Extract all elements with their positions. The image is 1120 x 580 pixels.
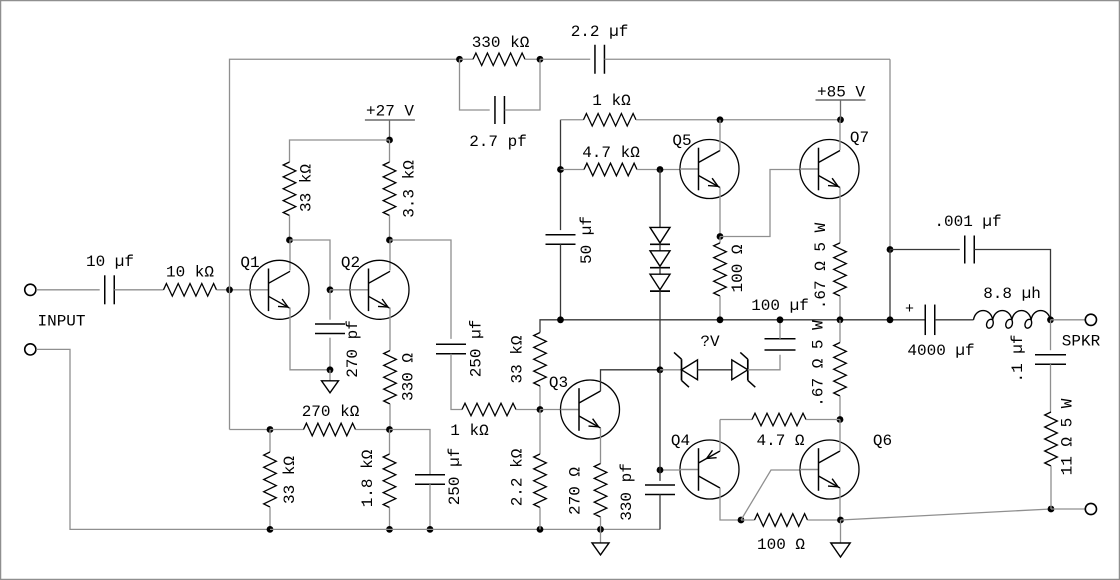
power +27 V <box>365 120 415 140</box>
wire <box>719 296 721 320</box>
label Q1 <box>240 254 259 272</box>
wire <box>839 320 841 343</box>
wire <box>1050 364 1052 412</box>
node (Q1 base) <box>226 286 233 293</box>
wire (Q3 emitter) <box>600 428 602 464</box>
svg-text:1 kΩ: 1 kΩ <box>450 422 489 440</box>
capacitor 4000 µf <box>925 305 935 336</box>
label + (4000 µf polarity) <box>905 301 914 318</box>
wire <box>808 519 841 521</box>
wire <box>806 419 840 421</box>
wire <box>389 140 391 162</box>
capacitor 100 µf <box>765 339 796 350</box>
wire <box>779 320 781 339</box>
node <box>837 316 844 323</box>
wire <box>841 509 1052 520</box>
wire <box>1051 319 1086 321</box>
svg-text:INPUT: INPUT <box>37 313 85 331</box>
svg-text:4000 µf: 4000 µf <box>907 342 974 360</box>
svg-text:4.7 Ω: 4.7 Ω <box>756 432 804 450</box>
node <box>267 426 274 433</box>
label 100 Ω (bottom) <box>757 536 805 554</box>
resistor 270 Ω <box>594 464 607 518</box>
zener diode (right) <box>732 352 756 387</box>
label Q5 <box>672 132 691 150</box>
node <box>456 56 463 63</box>
wire <box>505 59 540 110</box>
svg-text:3.3 kΩ: 3.3 kΩ <box>401 160 419 218</box>
wire <box>451 354 462 410</box>
svg-text:+85 V: +85 V <box>817 84 865 102</box>
label 11 Ω 5 W <box>1059 398 1077 475</box>
svg-text:SPKR: SPKR <box>1062 333 1101 351</box>
label 100 µf <box>751 297 809 315</box>
svg-text:270 kΩ: 270 kΩ <box>302 403 360 421</box>
wire <box>1050 320 1052 350</box>
transistor Q4 <box>680 440 739 499</box>
label 270 Ω <box>567 467 585 515</box>
wire <box>659 494 661 529</box>
label 4.7 Ω <box>756 432 804 450</box>
wire <box>659 291 661 370</box>
svg-text:250 µf: 250 µf <box>468 320 486 378</box>
svg-text:+: + <box>905 301 914 318</box>
svg-text:8.8 µh: 8.8 µh <box>983 285 1041 303</box>
resistor 330 Ω <box>384 351 397 405</box>
capacitor 250 µf (b) <box>415 475 445 485</box>
wire <box>36 349 270 529</box>
capacitor 2.2 µf <box>595 45 605 74</box>
transistor Q6 <box>800 440 859 499</box>
wire <box>539 410 541 455</box>
wire (Q7 emitter) <box>839 188 841 243</box>
label 330 kΩ <box>472 34 530 52</box>
wire <box>389 216 391 241</box>
wire <box>460 58 474 60</box>
wire (Q6 emitter) <box>839 488 841 520</box>
resistor 2.2 kΩ <box>534 454 547 508</box>
ground <box>322 370 339 393</box>
svg-text:2.7 pf: 2.7 pf <box>469 133 527 151</box>
wire <box>974 250 1050 320</box>
capacitor 330 pf <box>645 485 675 495</box>
label 2.2 kΩ <box>509 448 527 506</box>
wire <box>741 519 755 521</box>
wire <box>561 119 584 121</box>
node <box>837 416 844 423</box>
ground <box>831 520 850 557</box>
label Q2 <box>341 254 360 272</box>
wire <box>114 289 163 291</box>
wire <box>659 170 661 228</box>
svg-text:250 µf: 250 µf <box>446 448 464 506</box>
svg-text:270 Ω: 270 Ω <box>567 467 585 515</box>
wire <box>540 58 590 60</box>
capacitor .001 µf <box>965 236 975 264</box>
node <box>717 233 724 240</box>
output terminal (return) <box>1085 503 1096 514</box>
resistor .67 Ω 5 W (upper) <box>834 243 847 296</box>
label 33 kΩ (lower) <box>281 456 299 504</box>
label 2.2 µf <box>571 23 629 41</box>
resistor 1 kΩ (top) <box>584 114 637 127</box>
resistor .67 Ω 5 W (lower) <box>834 343 847 397</box>
wire <box>389 508 391 530</box>
wire <box>270 429 304 431</box>
node (Q5 base) <box>657 166 664 173</box>
wire <box>1051 508 1085 510</box>
node <box>267 526 274 533</box>
svg-text:Q4: Q4 <box>671 432 690 450</box>
svg-text:100 µf: 100 µf <box>751 297 809 315</box>
wire <box>460 59 490 110</box>
diode D1 <box>650 227 670 244</box>
resistor 330 kΩ <box>473 53 525 66</box>
wire <box>330 289 350 291</box>
wire <box>935 319 974 321</box>
svg-text:100 Ω: 100 Ω <box>729 244 747 292</box>
svg-text:33 kΩ: 33 kΩ <box>281 456 299 504</box>
wire <box>390 430 431 475</box>
node <box>386 426 393 433</box>
svg-text:.67 Ω 5 W: .67 Ω 5 W <box>812 222 830 309</box>
node <box>717 116 724 123</box>
wire <box>36 289 99 291</box>
wire (Q6 base link) <box>741 470 800 520</box>
wire (Q7 collector) <box>839 120 841 150</box>
svg-text:Q1: Q1 <box>240 254 259 272</box>
label 4.7 kΩ <box>582 144 640 162</box>
node <box>557 316 564 323</box>
label 1.8 kΩ <box>359 449 377 507</box>
svg-text:Q2: Q2 <box>341 254 360 272</box>
label .67 Ω 5 W (upper) <box>812 222 830 309</box>
label .67 Ω 5 W (lower) <box>810 320 828 407</box>
wire <box>698 369 732 371</box>
wire <box>329 290 331 320</box>
wire <box>600 517 602 529</box>
wire <box>289 240 291 271</box>
SPKR terminal <box>1085 314 1096 325</box>
wire (Q5 emitter) <box>719 188 721 237</box>
wire (Q1 emitter) <box>290 308 330 370</box>
transistor Q2 <box>350 260 409 319</box>
wire <box>839 396 841 420</box>
wire (Q7 base link) <box>720 170 800 237</box>
svg-text:1.8 kΩ: 1.8 kΩ <box>359 449 377 507</box>
node <box>597 526 604 533</box>
label +27 V <box>366 103 414 121</box>
svg-text:10 kΩ: 10 kΩ <box>166 264 214 282</box>
node <box>286 237 293 244</box>
label 270 pf <box>344 320 362 378</box>
wire <box>659 268 661 275</box>
label ?V <box>700 333 720 351</box>
label 2.7 pf <box>469 133 527 151</box>
svg-text:2.2 kΩ: 2.2 kΩ <box>509 448 527 506</box>
wire <box>660 369 682 371</box>
label 330 Ω <box>400 353 418 401</box>
wire <box>329 338 331 370</box>
label Q6 <box>873 432 892 450</box>
label 33 kΩ (Q3) <box>509 335 527 383</box>
node <box>1048 506 1055 513</box>
wire <box>540 320 925 333</box>
node <box>887 246 894 253</box>
label 33 kΩ <box>298 164 316 212</box>
label INPUT <box>37 313 85 331</box>
wire (.001 µf branch) <box>890 249 960 251</box>
node (Q4 base) <box>657 467 664 474</box>
wire <box>389 240 391 271</box>
node <box>657 366 664 373</box>
wire <box>539 386 541 410</box>
label .1 µf <box>1009 334 1027 382</box>
node <box>427 526 434 533</box>
node <box>887 316 894 323</box>
wire <box>605 58 891 60</box>
label 50 µf <box>578 216 596 264</box>
node <box>327 366 334 373</box>
wire <box>230 59 460 429</box>
wire <box>889 59 891 249</box>
input terminal (ground) <box>25 344 36 355</box>
label 8.8 µh <box>983 285 1041 303</box>
resistor 10 kΩ <box>164 284 217 297</box>
node <box>386 237 393 244</box>
svg-text:4.7 kΩ: 4.7 kΩ <box>582 144 640 162</box>
svg-text:1 kΩ: 1 kΩ <box>592 92 631 110</box>
wire <box>389 404 391 430</box>
wire <box>356 429 390 431</box>
wire <box>217 289 251 291</box>
transistor Q5 <box>680 140 739 199</box>
node <box>1047 316 1054 323</box>
node <box>386 526 393 533</box>
wire <box>269 430 271 453</box>
svg-text:330 Ω: 330 Ω <box>400 353 418 401</box>
wire <box>289 216 291 241</box>
label .001 µf <box>934 213 1001 231</box>
label 100 Ω (Q5 emitter) <box>729 244 747 292</box>
label 4000 µf <box>907 342 974 360</box>
resistor 3.3 kΩ <box>383 162 396 216</box>
wire <box>539 508 541 530</box>
wire <box>269 507 271 529</box>
label +85 V <box>817 84 865 102</box>
wire <box>525 58 540 60</box>
wire <box>659 244 661 251</box>
resistor 100 Ω (bottom) <box>755 514 808 527</box>
resistor 4.7 kΩ <box>584 163 637 176</box>
wire (Q4 base) <box>660 469 680 471</box>
wire (Q6 collector) <box>839 420 841 452</box>
inductor 8.8 µh <box>974 311 1051 329</box>
resistor 33 kΩ (lower) <box>264 452 277 507</box>
svg-text:Q6: Q6 <box>873 432 892 450</box>
node <box>738 517 745 524</box>
wire <box>290 140 390 162</box>
label 330 pf <box>618 463 636 521</box>
wire <box>719 237 721 243</box>
resistor 4.7 Ω <box>752 413 806 426</box>
svg-text:2.2 µf: 2.2 µf <box>571 23 629 41</box>
zener diode (left) <box>674 352 698 387</box>
svg-text:.67 Ω 5 W: .67 Ω 5 W <box>810 320 828 407</box>
resistor 11 Ω 5 W <box>1045 412 1058 466</box>
capacitor 10 µf <box>105 275 115 304</box>
svg-text:+27 V: +27 V <box>366 103 414 121</box>
wire <box>636 119 841 121</box>
wire <box>390 240 452 339</box>
svg-text:?V: ?V <box>700 333 720 351</box>
svg-text:33 kΩ: 33 kΩ <box>509 335 527 383</box>
wire <box>637 169 680 171</box>
input terminal (signal) <box>25 284 36 295</box>
node <box>837 517 844 524</box>
label 3.3 kΩ <box>401 160 419 218</box>
diode D3 <box>650 274 670 291</box>
wire <box>389 430 391 455</box>
wire <box>290 240 331 290</box>
label 1 kΩ (top) <box>592 92 631 110</box>
wire <box>516 409 540 411</box>
diode D2 <box>650 251 670 268</box>
transistor Q3 <box>561 380 620 439</box>
node <box>837 116 844 123</box>
svg-text:11 Ω 5 W: 11 Ω 5 W <box>1059 398 1077 475</box>
label 10 µf <box>86 253 134 271</box>
resistor 1.8 kΩ <box>383 454 396 508</box>
wire <box>839 296 841 320</box>
resistor 270 kΩ <box>304 423 356 436</box>
node <box>386 137 393 144</box>
svg-text:330 pf: 330 pf <box>618 463 636 521</box>
svg-text:270 pf: 270 pf <box>344 320 362 378</box>
label Q4 <box>671 432 690 450</box>
svg-text:330 kΩ: 330 kΩ <box>472 34 530 52</box>
capacitor 250 µf (a) <box>436 344 466 354</box>
svg-text:.001 µf: .001 µf <box>934 213 1001 231</box>
wire (Q2 emitter) <box>389 308 391 351</box>
svg-text:33 kΩ: 33 kΩ <box>298 164 316 212</box>
wire (Q4 collector) <box>720 488 741 520</box>
transistor Q7 <box>800 140 859 199</box>
svg-text:.1 µf: .1 µf <box>1009 334 1027 382</box>
wire <box>748 355 780 370</box>
wire <box>889 250 891 320</box>
wire <box>561 169 585 171</box>
svg-text:10 µf: 10 µf <box>86 253 134 271</box>
wire <box>560 120 562 230</box>
resistor 33 kΩ <box>283 162 296 216</box>
label 1 kΩ (Q3 base) <box>450 422 489 440</box>
label Q7 <box>850 129 869 147</box>
node <box>717 316 724 323</box>
label 250 µf (b) <box>446 448 464 506</box>
wire <box>659 470 661 481</box>
wire (Q3 collector) <box>601 370 661 391</box>
wire (Q5 collector) <box>719 120 721 151</box>
node <box>557 166 564 173</box>
wire <box>230 429 271 431</box>
capacitor 50 µf <box>546 235 576 245</box>
node <box>777 316 784 323</box>
svg-text:50 µf: 50 µf <box>578 216 596 264</box>
label Q3 <box>549 374 568 392</box>
wire <box>540 409 561 411</box>
label 10 kΩ <box>166 264 214 282</box>
node (Q3 base) <box>537 406 544 413</box>
power +85 V <box>816 100 866 120</box>
svg-text:Q7: Q7 <box>850 129 869 147</box>
node (Q2 base) <box>327 286 334 293</box>
wire (bottom rail) <box>270 528 660 530</box>
resistor 100 Ω (Q5 emitter) <box>714 243 727 296</box>
transistor Q1 <box>250 260 309 319</box>
wire <box>659 370 661 470</box>
svg-text:Q3: Q3 <box>549 374 568 392</box>
capacitor 270 pf <box>315 324 345 334</box>
wire (Q4 emitter) <box>719 420 721 452</box>
label SPKR <box>1062 333 1101 351</box>
resistor 1 kΩ (Q3 base) <box>462 403 516 416</box>
svg-text:100 Ω: 100 Ω <box>757 536 805 554</box>
wire <box>720 419 752 421</box>
wire <box>429 484 431 529</box>
ground <box>592 529 609 555</box>
wire <box>1050 466 1052 509</box>
capacitor .1 µf <box>1035 355 1066 365</box>
resistor 33 kΩ (Q3) <box>534 333 547 387</box>
label 270 kΩ <box>302 403 360 421</box>
capacitor 2.7 pf <box>495 96 505 124</box>
node <box>537 56 544 63</box>
label 250 µf (a) <box>468 320 486 378</box>
svg-text:Q5: Q5 <box>672 132 691 150</box>
wire <box>560 244 562 320</box>
node <box>537 526 544 533</box>
